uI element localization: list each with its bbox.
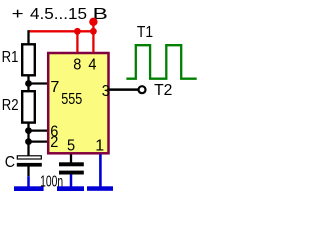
wire power rail	[29, 30, 94, 32]
wire to pin 6	[29, 129, 49, 131]
resistor R2	[22, 91, 35, 122]
ground wire pin 1	[99, 154, 102, 186]
wire to pin 2	[29, 140, 49, 142]
wire rail to pin 4	[92, 31, 94, 53]
svg-text:3: 3	[102, 83, 110, 100]
ground symbol under 100n	[57, 186, 84, 191]
svg-text:1: 1	[95, 137, 104, 154]
wire to pin 7	[29, 82, 49, 84]
svg-text:T2: T2	[154, 82, 172, 99]
ground symbol under C	[14, 186, 44, 191]
svg-text:2: 2	[50, 134, 58, 151]
wire rail to R1	[27, 30, 29, 44]
wire pin 3 to output	[109, 88, 139, 91]
capacitor C negative plate	[17, 163, 42, 167]
op IC U1 555 body	[48, 53, 108, 153]
waveform output square wave	[126, 45, 196, 78]
ground wire under 100n	[70, 175, 73, 187]
junction node pin 2	[25, 138, 32, 145]
svg-text:5: 5	[67, 137, 75, 154]
ground symbol pin 1	[87, 186, 113, 191]
svg-text:R1: R1	[2, 49, 19, 66]
wire pin 5 to 100n	[70, 154, 72, 162]
wire R1 to R2	[27, 75, 29, 91]
svg-text:T1: T1	[137, 24, 153, 41]
svg-text:555: 555	[61, 91, 82, 108]
svg-text:R2: R2	[2, 97, 19, 114]
svg-text:4.5...15: 4.5...15	[30, 6, 87, 23]
positive supply terminal	[89, 18, 97, 26]
svg-text:4: 4	[88, 56, 96, 73]
svg-text:8: 8	[73, 56, 81, 73]
junction node rail/pin8	[74, 28, 81, 35]
wire supply terminal to rail	[92, 22, 94, 32]
resistor R1	[22, 44, 35, 75]
svg-text:C: C	[5, 154, 15, 171]
svg-text:+: +	[12, 6, 24, 23]
junction node pin 7	[25, 80, 32, 87]
wire R2 to C	[27, 123, 29, 156]
output terminal	[139, 86, 146, 93]
junction node rail/pin4	[90, 28, 97, 35]
capacitor 100n top plate	[59, 162, 84, 166]
wire rail to pin 8	[76, 31, 78, 53]
capacitor 100n bottom plate	[59, 171, 84, 175]
svg-text:7: 7	[50, 79, 59, 96]
capacitor C positive plate	[17, 156, 41, 159]
junction node pin 6	[25, 127, 32, 134]
ground wire under C	[27, 176, 30, 186]
wire C to ground	[27, 167, 29, 177]
